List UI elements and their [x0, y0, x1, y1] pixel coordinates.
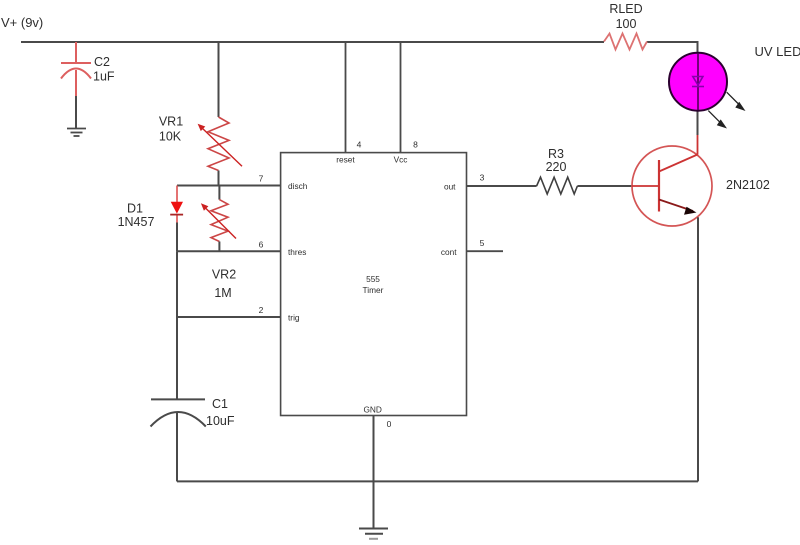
resistor R3 [537, 177, 578, 194]
wire ground bottom [177, 480, 698, 482]
svg-text:5: 5 [480, 238, 485, 248]
wire collector black upper [697, 110, 699, 135]
svg-text:RLED: RLED [609, 2, 642, 16]
svg-text:555: 555 [366, 274, 380, 284]
wire disch net (pin 7) [177, 185, 281, 187]
wire trig net (pin 2) [177, 316, 281, 318]
transistor Q1 2N2102 [632, 146, 712, 226]
wire RLED right to corner [647, 42, 698, 53]
svg-text:6: 6 [259, 239, 264, 249]
light arrow 2 [708, 111, 722, 125]
capacitor C2 [61, 42, 91, 96]
svg-text:2N2102: 2N2102 [726, 178, 770, 192]
svg-text:thres: thres [288, 247, 306, 257]
wire left node vertical [176, 251, 178, 399]
wire rail to VR1 [218, 42, 220, 117]
svg-text:10uF: 10uF [206, 414, 235, 428]
svg-text:C2: C2 [94, 55, 110, 69]
svg-text:UV LED: UV LED [755, 44, 800, 59]
ground (C2) [67, 129, 86, 137]
svg-text:cont: cont [441, 247, 457, 257]
diode D1 [176, 186, 178, 204]
potentiometer VR1 [208, 117, 229, 171]
wire thres net (pin 6) [177, 250, 281, 252]
svg-text:trig: trig [288, 313, 300, 323]
svg-text:3: 3 [480, 173, 485, 183]
svg-text:GND: GND [363, 404, 381, 414]
svg-text:1M: 1M [214, 286, 231, 300]
svg-text:0: 0 [387, 419, 392, 429]
wire Vcc pin 8 [400, 42, 402, 153]
ground (main) [359, 529, 388, 539]
LED UV (magenta) [669, 53, 727, 111]
op-amp/timer U1 555 box [281, 153, 467, 416]
svg-text:disch: disch [288, 181, 308, 191]
svg-text:reset: reset [336, 155, 355, 165]
wire GND pin 0 [373, 416, 375, 529]
capacitor C1 [151, 398, 205, 400]
svg-text:100: 100 [616, 17, 637, 31]
svg-text:10K: 10K [159, 130, 182, 144]
svg-text:R3: R3 [548, 147, 564, 161]
potentiometer VR2 [218, 186, 220, 200]
svg-text:8: 8 [413, 140, 418, 150]
svg-text:220: 220 [546, 160, 567, 174]
svg-text:4: 4 [357, 140, 362, 150]
svg-text:1N457: 1N457 [118, 215, 155, 229]
wire R3 to transistor [577, 185, 632, 187]
svg-text:V+ (9v): V+ (9v) [1, 15, 43, 30]
svg-text:7: 7 [259, 174, 264, 184]
svg-text:1uF: 1uF [93, 70, 115, 84]
resistor RLED [604, 34, 647, 50]
svg-text:Vcc: Vcc [394, 155, 408, 165]
svg-text:C1: C1 [212, 397, 228, 411]
svg-text:2: 2 [259, 305, 264, 315]
svg-text:out: out [444, 182, 456, 192]
svg-text:D1: D1 [127, 202, 143, 216]
wire cont stub (pin 5) [467, 250, 504, 252]
wire reset pin 4 [345, 42, 347, 153]
svg-text:Timer: Timer [363, 285, 384, 295]
wire out net (pin 3) [467, 185, 537, 187]
svg-text:VR1: VR1 [159, 115, 183, 129]
light arrow 1 [727, 92, 741, 106]
svg-text:VR2: VR2 [212, 268, 236, 282]
wire emitter to bottom rail [697, 217, 699, 481]
wire V+ rail [21, 41, 604, 43]
